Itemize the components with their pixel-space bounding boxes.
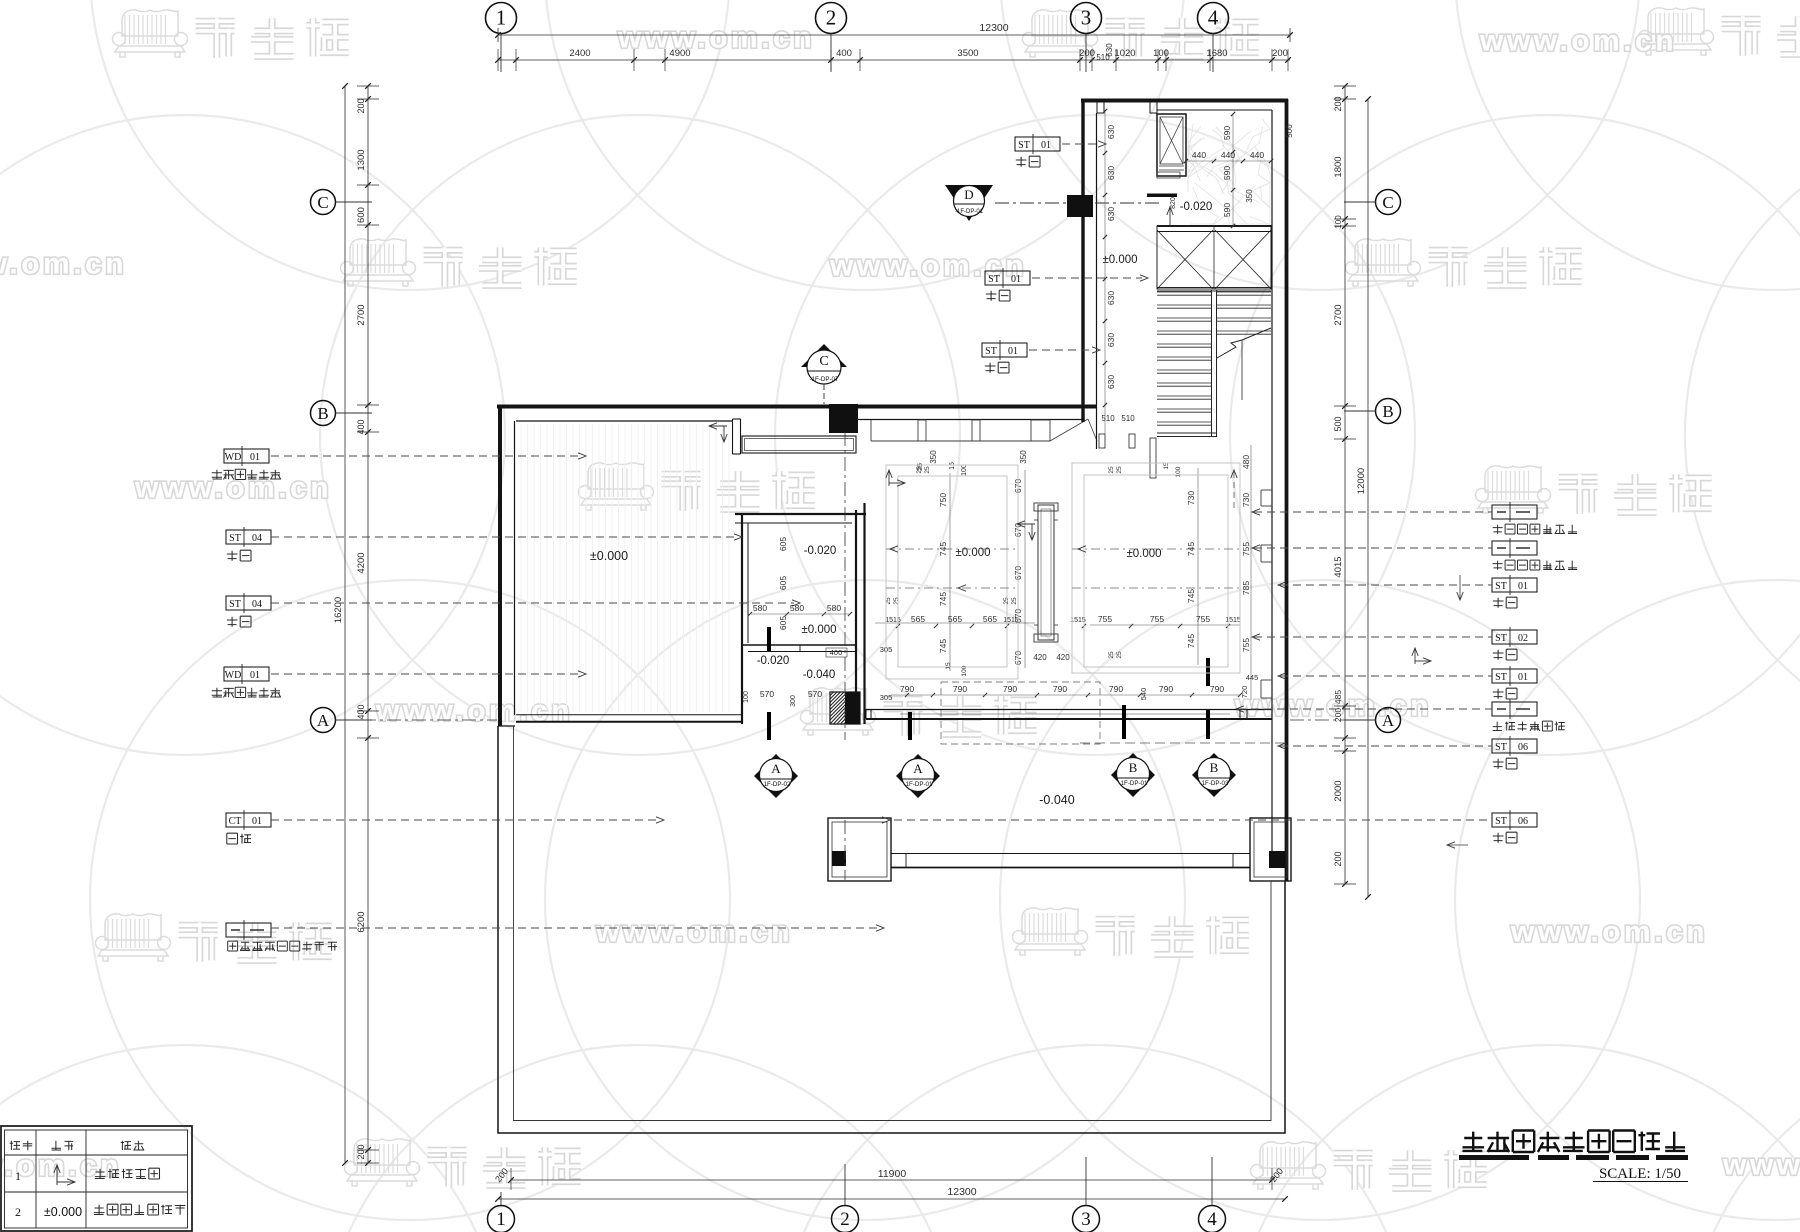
svg-text:01: 01 [1041,140,1051,151]
svg-text:C: C [819,354,828,369]
stair door leaf [1150,438,1156,478]
svg-text:100: 100 [961,464,968,476]
porch right pier [1250,818,1291,881]
svg-text:400: 400 [356,704,366,719]
wall: main top wall [497,405,1097,409]
svg-text:C: C [317,193,328,212]
svg-text:510: 510 [1101,414,1115,423]
right label stone pattern 2 [1492,541,1537,555]
svg-text:WD: WD [225,670,242,681]
svg-text:100: 100 [1153,48,1169,59]
svg-text:WD: WD [225,452,242,463]
svg-text:570: 570 [808,689,822,699]
svg-text:B: B [1129,760,1138,775]
svg-text:2: 2 [826,6,837,30]
svg-text:3: 3 [1081,6,1092,30]
svg-text:590: 590 [1222,126,1232,140]
diagonal at corridor corner [1050,419,1088,441]
dashed rect at sliding door [941,682,1100,744]
svg-text:720: 720 [1240,686,1249,699]
svg-text:www.om.cn: www.om.cn [617,22,815,55]
svg-text:01: 01 [252,816,262,827]
svg-text:01: 01 [250,452,260,463]
svg-text:440: 440 [1192,150,1206,160]
centerline grid 2 vertical [844,432,846,740]
svg-text:25: 25 [1108,651,1115,659]
svg-text:790: 790 [1003,684,1017,694]
svg-text:-1F-DP-01: -1F-DP-01 [904,781,933,788]
svg-text:01: 01 [250,670,260,681]
wing: left wall [1081,99,1084,422]
svg-text:4: 4 [1207,1209,1217,1230]
svg-text:D: D [964,187,973,202]
wing: jambs of top opening [1097,99,1104,113]
svg-text:570: 570 [760,689,774,699]
right dim chain segments [1344,86,1346,884]
dashed line porch [1080,742,1286,744]
elevator shaft [1157,114,1186,176]
svg-text:200: 200 [1333,96,1343,111]
svg-text:485: 485 [1333,690,1343,704]
porch left pier [828,818,891,881]
svg-text:1800: 1800 [1333,156,1344,177]
svg-text:305: 305 [880,693,893,702]
svg-text:400: 400 [356,419,366,434]
wall: top wall inner face right part [858,419,1083,421]
watermark logos [122,10,178,36]
svg-text:200: 200 [356,1144,366,1159]
svg-text:www.om.cn: www.om.cn [1510,916,1708,949]
right label sliding door track [1492,702,1537,716]
svg-text:25: 25 [924,466,931,474]
floor border inlay right room [1072,463,1240,673]
stair label ST01 c [982,343,1027,357]
svg-text:4: 4 [1208,6,1219,30]
top dim chain total 12300 [498,34,1290,36]
middle room dim chains [949,473,951,671]
svg-text:350: 350 [929,450,938,464]
svg-text:B: B [1210,760,1219,775]
label CT01 ceramic [226,813,271,827]
marble room bottom wall / landing edge [1157,225,1272,227]
grid bubbles left C B A [311,190,336,215]
svg-text:-1F-DP-01: -1F-DP-01 [1119,780,1148,787]
wall ledge with pilasters [871,440,1050,442]
svg-text:790: 790 [1159,684,1173,694]
svg-text:±0.000: ±0.000 [44,1205,82,1219]
svg-text:605: 605 [778,537,788,551]
wall: left outer wall [498,405,502,726]
grid bubbles bottom 1-4 [488,1206,515,1232]
svg-text:-1F-DP-01: -1F-DP-01 [955,209,984,215]
svg-text:755: 755 [1098,614,1112,624]
drawing title [1463,1132,1485,1152]
svg-text:3500: 3500 [957,48,978,59]
door threshold black bar [1147,194,1177,198]
sliding door pocket below top wall [742,436,856,453]
label ST04 stone [226,530,271,544]
bottom bubble leaders [844,1164,846,1205]
svg-text:02: 02 [1518,633,1528,644]
svg-text:350: 350 [1019,450,1028,464]
svg-text:-0.040: -0.040 [1039,793,1074,807]
svg-text:510: 510 [1121,414,1135,423]
section marker A (-1F-DP-02) [754,754,798,798]
svg-text:15: 15 [945,662,952,670]
svg-text:790: 790 [900,684,914,694]
wing: top wall [1081,99,1288,103]
svg-text:755: 755 [1196,614,1210,624]
centerline grid A horizontal [337,719,497,721]
svg-text:755: 755 [1241,638,1251,652]
svg-text:730: 730 [1241,493,1251,507]
floor border inlay middle room [886,465,1018,679]
right dim total 12000 [1367,99,1369,897]
svg-text:600: 600 [356,207,367,223]
south wall: wood room part [516,714,742,716]
label WD01 wood floor 2 [224,667,269,681]
svg-text:ST: ST [1495,672,1507,683]
svg-text:200: 200 [1079,48,1095,59]
section marker B (-1F-DP-03) [1192,753,1236,797]
svg-text:1: 1 [496,6,507,30]
stair label ST01 b [985,271,1030,285]
svg-text:730: 730 [1186,491,1196,505]
svg-text:2: 2 [840,1209,850,1230]
column C3 black (wing left wall) [1067,195,1093,217]
svg-text:ST: ST [1495,633,1507,644]
svg-text:565: 565 [948,614,962,624]
svg-text:ST: ST [1495,816,1507,827]
svg-text:-0.040: -0.040 [803,669,836,681]
svg-text:630: 630 [1106,207,1116,221]
door jamb at top wall opening [732,419,734,454]
dim row y623 [875,622,1035,624]
svg-text:565: 565 [983,614,997,624]
svg-text:540: 540 [1139,688,1148,701]
threshold arrow 820 [1169,207,1171,225]
right label ST06 b [1492,813,1537,827]
svg-text:2: 2 [15,1205,21,1219]
svg-text:12300: 12300 [947,1186,976,1198]
svg-text:-1F-DP-07: -1F-DP-07 [810,376,839,383]
legend table [1,1126,192,1231]
stair: right flight treads [1217,291,1271,293]
svg-text:200: 200 [1333,851,1343,866]
wood floor planks [520,424,522,712]
svg-text:01: 01 [1518,672,1528,683]
ticks on rows [896,624,900,628]
svg-text:1680: 1680 [1206,48,1227,59]
svg-text:A: A [913,761,923,776]
svg-text:400: 400 [836,48,852,59]
svg-text:±0.000: ±0.000 [801,624,836,636]
svg-text:15: 15 [949,462,956,470]
svg-text:A: A [317,711,330,730]
svg-text:01: 01 [1008,346,1018,357]
svg-text:590: 590 [1222,166,1232,180]
svg-text:605: 605 [778,616,788,630]
svg-text:500: 500 [1285,124,1294,138]
svg-text:±0.000: ±0.000 [1102,254,1137,266]
left dim chain segments [367,86,369,1163]
svg-text:100: 100 [1175,466,1182,477]
small room: left wall [741,514,743,724]
svg-text:ST: ST [229,599,241,610]
small room: divider wall [742,644,856,646]
label landscape design [226,923,271,937]
svg-text:200: 200 [356,98,366,113]
svg-text:06: 06 [1518,816,1528,827]
svg-text:1: 1 [496,1209,506,1230]
svg-text:745: 745 [1186,634,1196,648]
marble floor texture [1188,130,1224,173]
right label stone pattern 1 [1492,505,1537,519]
right label ST01 [1492,578,1537,592]
svg-text:590: 590 [1222,203,1232,217]
svg-text:785: 785 [1241,581,1251,595]
svg-text:420: 420 [1056,653,1070,662]
svg-text:100: 100 [1334,215,1343,229]
svg-text:4015: 4015 [1333,556,1344,577]
svg-text:1: 1 [15,1169,21,1183]
svg-text:630: 630 [1106,166,1116,180]
left dim total 16200 [344,86,346,1163]
svg-text:±0.000: ±0.000 [590,549,628,563]
stair: left flight treads [1157,291,1211,293]
svg-text:300: 300 [790,695,797,707]
svg-text:-0.020: -0.020 [1180,201,1213,213]
svg-text:1020: 1020 [1114,48,1135,59]
svg-text:630: 630 [1106,291,1116,305]
stair: landing edge [1157,287,1271,289]
svg-text:04: 04 [252,599,262,610]
left wall end cap [498,725,515,727]
right label ST06 [1492,739,1537,753]
svg-text:6200: 6200 [356,911,367,932]
svg-text:11900: 11900 [878,1168,907,1180]
section cut bars [767,627,771,651]
svg-text:350: 350 [1245,189,1254,203]
svg-text:2400: 2400 [569,48,590,59]
terrace boundary inner [514,726,1272,1121]
svg-text:745: 745 [1186,589,1196,603]
svg-text:25: 25 [1108,466,1115,474]
section marker A (-1F-DP-01) [896,754,940,798]
label WD01 wood floor [224,449,269,463]
stair label ST01 a [1015,137,1060,151]
svg-text:ST: ST [1495,581,1507,592]
svg-text:745: 745 [938,639,948,653]
small room: top wall [735,513,866,515]
svg-text:2700: 2700 [356,304,367,325]
svg-text:4900: 4900 [669,48,690,59]
stair: center stringer [1211,290,1213,437]
svg-text:3: 3 [1081,1209,1091,1230]
svg-text:500: 500 [1333,416,1343,431]
column C2 (top wall) [829,404,858,433]
right label ST01 b [1492,669,1537,683]
svg-text:ST: ST [229,533,241,544]
svg-text:ST: ST [1495,742,1507,753]
top dim chain segments [498,59,1290,61]
svg-text:B: B [317,404,328,423]
corridor 630 chain [1104,111,1106,434]
svg-text:755: 755 [1241,542,1251,556]
svg-text:www.om.cn: www.om.cn [134,472,332,505]
terrace boundary outer [498,726,1285,1133]
svg-text:630: 630 [1106,375,1116,389]
centerline through column D [995,202,1162,204]
svg-text:A: A [771,761,781,776]
bottom dim chain 11900 [511,1179,1272,1181]
section marker D [945,185,993,221]
svg-text:01: 01 [1011,274,1021,285]
svg-text:790: 790 [953,684,967,694]
right label ST02 [1492,630,1537,644]
svg-text:04: 04 [252,533,262,544]
svg-text:-1F-DP-02: -1F-DP-02 [762,781,791,788]
svg-text:820: 820 [1170,197,1177,209]
svg-text:CT: CT [229,816,242,827]
stair: bottom edge [1157,432,1217,434]
svg-text:±0.000: ±0.000 [1126,548,1161,560]
svg-text:4200: 4200 [356,552,367,573]
right wall window jambs [1261,489,1272,491]
svg-text:www.om.cn: www.om.cn [595,916,793,949]
svg-text:25: 25 [1011,597,1018,605]
small room: right wall (double) [855,510,857,724]
svg-text:25: 25 [1116,466,1123,474]
svg-text:06: 06 [1518,742,1528,753]
porch south wall [891,853,1250,855]
svg-text:400: 400 [830,648,843,657]
svg-text:A: A [1382,711,1395,730]
svg-text:www.om.cn: www.om.cn [1479,25,1677,58]
fireplace pier [1038,505,1054,640]
label ST04 stone 2 [226,596,271,610]
svg-text:1515: 1515 [885,617,901,624]
svg-text:755: 755 [1150,614,1164,624]
section marker B (-1F-DP-01) [1111,753,1155,797]
svg-text:25: 25 [893,597,900,605]
svg-text:605: 605 [778,576,788,590]
svg-text:750: 750 [938,493,948,507]
svg-text:ST: ST [1018,140,1030,151]
grid bubbles right C B A [1376,190,1401,215]
svg-text:580: 580 [790,603,804,613]
svg-text:01: 01 [1518,581,1528,592]
svg-text:445: 445 [1246,673,1259,682]
svg-text:480: 480 [1241,455,1251,469]
small room: divider jambs [769,645,771,652]
south wall: right part with sliding doors [866,709,1272,711]
svg-text:580: 580 [827,603,841,613]
svg-text:12000: 12000 [1356,468,1367,494]
svg-text:25: 25 [917,463,924,471]
tile start arrows [709,425,727,427]
svg-text:745: 745 [938,592,948,606]
svg-text:790: 790 [1210,684,1224,694]
svg-text:-0.020: -0.020 [757,655,790,667]
bottom dim chain 12300 [498,1198,1285,1200]
dim row y695 (790) [891,694,1240,696]
svg-text:1300: 1300 [356,149,367,170]
svg-text:1515: 1515 [1003,617,1019,624]
svg-text:200: 200 [1272,48,1288,59]
grid bubbles top 1-4 [486,3,517,34]
svg-text:-1F-DP-03: -1F-DP-03 [1200,780,1229,787]
svg-text:12300: 12300 [979,22,1008,34]
svg-text:790: 790 [1053,684,1067,694]
marble room dims [1186,160,1271,162]
svg-text:SCALE: 1/50: SCALE: 1/50 [1599,1166,1681,1182]
svg-text:ST: ST [988,274,1000,285]
svg-text:100: 100 [743,691,750,703]
svg-text:C: C [1382,193,1393,212]
svg-text:440: 440 [1250,150,1264,160]
right room dim chains [1197,468,1199,665]
wing: right wall [1285,99,1289,881]
svg-text:ST: ST [985,346,997,357]
svg-text:2700: 2700 [1333,304,1344,325]
svg-text:B: B [1382,402,1393,421]
svg-text:16200: 16200 [333,597,344,623]
svg-text:420: 420 [1033,653,1047,662]
svg-text:25: 25 [1116,651,1123,659]
svg-text:630: 630 [1106,333,1116,347]
dashed leader 480 up [1233,472,1235,510]
svg-text:565: 565 [911,614,925,624]
stair: break line [1217,328,1271,358]
stair: landing winders [1157,226,1271,289]
svg-text:2000: 2000 [1333,780,1344,801]
svg-text:630: 630 [1106,125,1116,139]
svg-text:790: 790 [1109,684,1123,694]
svg-text:www.om.cn: www.om.cn [1722,1149,1800,1182]
arrows near porch/walls [1459,575,1461,600]
svg-text:www.om.cn: www.om.cn [0,248,127,281]
step hatch block [830,692,860,724]
svg-text:580: 580 [753,603,767,613]
svg-text:-0.020: -0.020 [804,545,837,557]
svg-text:510: 510 [1096,53,1110,62]
decorative watermark arcs [90,0,730,290]
section marker C [801,344,847,367]
